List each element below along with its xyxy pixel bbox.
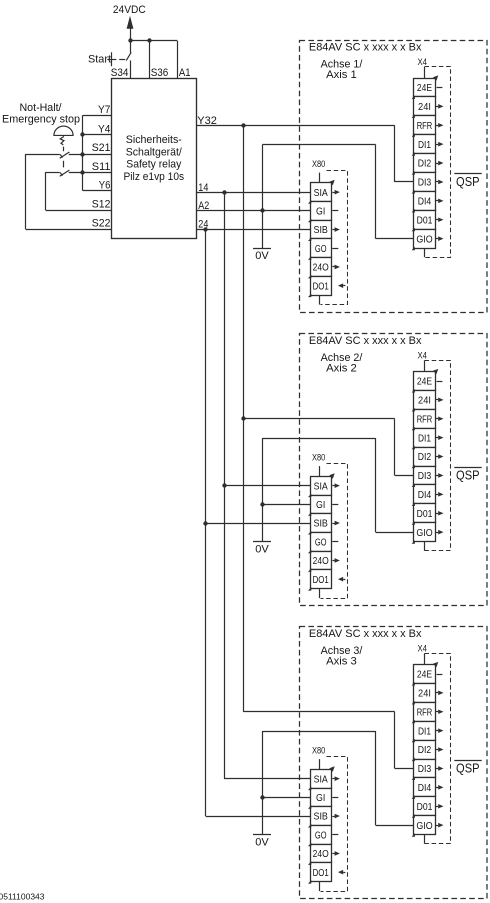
svg-text:DO1: DO1 — [313, 280, 329, 292]
node junction S21 — [80, 152, 84, 156]
svg-text:24E: 24E — [417, 82, 432, 94]
wire QSP branch to DI3 (axis 2) — [243, 419, 413, 476]
terminal strip X4 dashed box (axis 3) — [425, 654, 451, 844]
svg-text:QSP: QSP — [456, 174, 480, 189]
wire 0V to GIO loop (axis 3) — [262, 731, 413, 826]
svg-text:SIB: SIB — [314, 224, 328, 236]
label S11 — [92, 161, 111, 173]
wire S11 right segment — [69, 172, 112, 174]
svg-text:Start: Start — [88, 54, 111, 66]
label S36 — [151, 67, 169, 79]
svg-text:D01: D01 — [417, 801, 433, 813]
terminal strip X4 dashed box (axis 2) — [425, 361, 451, 551]
svg-text:Schaltgerät/: Schaltgerät/ — [126, 146, 183, 158]
svg-text:Axis 2: Axis 2 — [326, 362, 357, 374]
terminal strip X4 cells (axis 1) — [414, 79, 436, 249]
svg-text:RFR: RFR — [417, 706, 433, 718]
node junction QSP bus (axis 2) — [241, 416, 245, 420]
svg-text:24I: 24I — [418, 101, 431, 113]
svg-text:0511100343: 0511100343 — [0, 892, 45, 901]
wire S22 — [26, 229, 112, 231]
terminal strip X80 dashed box (axis 3) — [321, 757, 348, 892]
label Start — [88, 54, 111, 66]
safety relay K1 box — [112, 79, 197, 239]
terminal strip X80 cells (axis 2) — [311, 477, 332, 589]
svg-text:X80: X80 — [312, 746, 325, 756]
terminal strip X80 dashed box (axis 1) — [321, 171, 348, 305]
svg-text:DI3: DI3 — [418, 177, 432, 189]
wire bus 24 vertical — [205, 229, 207, 816]
svg-text:SIA: SIA — [314, 480, 328, 492]
svg-text:DI4: DI4 — [418, 489, 432, 501]
svg-text:X4: X4 — [418, 643, 428, 653]
wire S12 — [46, 210, 112, 212]
start button actuator — [107, 52, 116, 66]
terminal strip X4 label (axis 1) — [418, 57, 428, 67]
svg-text:QSP: QSP — [456, 761, 480, 776]
wire Y4 — [83, 134, 112, 136]
terminal strip X80 pin notches (axis 1) — [308, 200, 311, 297]
wire X80 top stub (axis 2) — [319, 466, 321, 476]
wire A1 drop — [177, 41, 179, 79]
svg-text:X80: X80 — [312, 453, 325, 463]
wire SIB feed (axis 2) — [206, 523, 311, 525]
supply arrow up — [127, 16, 134, 29]
svg-text:SIA: SIA — [314, 773, 328, 785]
label A1 — [179, 67, 191, 79]
svg-text:24E: 24E — [417, 376, 432, 388]
svg-text:0V: 0V — [255, 543, 269, 555]
svg-text:RFR: RFR — [417, 120, 433, 132]
axis 3 dashed enclosure — [300, 627, 488, 899]
label Not-Halt — [20, 102, 63, 114]
wire SIA feed (axis 2) — [224, 485, 310, 487]
axis 3 title — [309, 628, 422, 640]
start button link dash — [119, 59, 125, 61]
wire 24VDC vertical — [130, 28, 132, 41]
wire X4 top stub (axis 2) — [424, 360, 426, 371]
wire Y7 — [83, 115, 112, 117]
terminal strip X4 arrows (axis 2) — [433, 369, 444, 535]
svg-text:X4: X4 — [418, 57, 428, 67]
svg-text:E84AV SC x xxx x x Bx: E84AV SC x xxx x x Bx — [309, 628, 422, 640]
label 14 — [198, 182, 208, 194]
wire 0V to GIO loop (axis 1) — [262, 145, 413, 239]
e-stop contact 1 blade — [60, 152, 70, 158]
axis 1 name — [321, 58, 364, 81]
terminal strip X4 label (axis 2) — [418, 350, 428, 360]
wire X4 top stub (axis 1) — [424, 67, 426, 78]
terminal strip X4 pin notches (axis 1) — [412, 96, 415, 251]
wire X4 top stub (axis 3) — [424, 653, 426, 664]
wire 0V to GIO loop (axis 2) — [262, 438, 413, 533]
ground 0V (axis 3) — [253, 835, 271, 849]
label QSP (axis 2) — [454, 468, 481, 483]
terminal strip X80 pin notches (axis 3) — [308, 787, 311, 884]
terminal strip X80 cells (axis 3) — [311, 770, 332, 882]
svg-text:24E: 24E — [417, 669, 432, 681]
terminal strip X80 dashed box (axis 2) — [321, 464, 348, 599]
terminal strip X4 arrows (axis 3) — [433, 662, 444, 828]
supply label 24VDC — [113, 4, 146, 16]
wire X80 top stub (axis 3) — [319, 759, 321, 769]
axis 1 dashed enclosure — [300, 41, 488, 313]
svg-text:S34: S34 — [111, 67, 129, 79]
wire X4 bottom stub (axis 2) — [424, 542, 426, 551]
svg-text:24I: 24I — [418, 394, 431, 406]
label Y6 — [99, 180, 111, 192]
node junction SIA bus (axis 2) — [222, 483, 226, 487]
label S34 — [111, 67, 129, 79]
start button S34 lower wire — [130, 60, 132, 78]
label Emergency stop — [2, 113, 80, 125]
node junction 14 bus — [222, 190, 226, 194]
label A2 — [198, 200, 209, 212]
svg-text:Y4: Y4 — [98, 123, 110, 135]
wire QSP branch to DI3 (axis 1) — [395, 125, 414, 182]
label Y7 — [98, 104, 110, 116]
svg-text:DO1: DO1 — [313, 867, 329, 879]
label S12 — [92, 199, 111, 211]
wire X80 top stub (axis 1) — [319, 173, 321, 183]
terminal strip X4 cells (axis 3) — [414, 665, 436, 835]
svg-text:GO: GO — [315, 536, 327, 548]
ground 0V (axis 1) — [253, 249, 271, 262]
svg-text:GIO: GIO — [416, 233, 432, 245]
node junction S34 rail — [128, 38, 132, 42]
wire X80 bottom stub (axis 2) — [319, 589, 321, 599]
wire A2 to GI — [196, 210, 310, 212]
label Y32 — [197, 115, 217, 127]
ground 0V (axis 2) — [253, 542, 271, 556]
svg-text:D01: D01 — [417, 214, 433, 226]
node junction S36 rail — [147, 38, 151, 42]
label S22 — [92, 217, 111, 229]
node junction GI 0V (axis 2) — [260, 502, 264, 506]
label 24 — [198, 218, 208, 230]
terminal strip X4 label (axis 3) — [418, 643, 428, 653]
svg-text:DI2: DI2 — [418, 451, 432, 463]
axis 2 name — [321, 352, 364, 375]
wire GI feed (axis 2) — [262, 504, 310, 506]
svg-text:DI3: DI3 — [418, 763, 432, 775]
terminal strip X80 cells (axis 1) — [311, 183, 332, 296]
svg-text:24O: 24O — [313, 848, 329, 860]
wire 24VDC horizontal rail — [130, 40, 177, 42]
start button S34 contact blade — [126, 52, 131, 60]
wire Y6 — [83, 190, 112, 192]
label Y4 — [98, 123, 110, 135]
svg-text:GO: GO — [315, 829, 327, 841]
svg-text:Axis 1: Axis 1 — [326, 69, 357, 81]
terminal strip X4 pin notches (axis 3) — [412, 682, 415, 837]
terminal strip X4 arrows (axis 1) — [433, 75, 444, 241]
terminal strip X80 arrows (axis 2) — [329, 473, 345, 581]
wire S21 right segment — [69, 154, 112, 156]
svg-text:X4: X4 — [418, 350, 428, 360]
wire S22 return vertical — [25, 154, 27, 229]
svg-text:GIO: GIO — [416, 527, 432, 539]
terminal strip X80 label (axis 1) — [312, 159, 325, 169]
svg-text:Pilz e1vp 10s: Pilz e1vp 10s — [124, 171, 185, 183]
svg-text:DI1: DI1 — [418, 432, 431, 444]
svg-text:GIO: GIO — [416, 820, 432, 832]
svg-text:Y7: Y7 — [98, 104, 110, 116]
svg-text:0V: 0V — [255, 836, 269, 848]
wire 24 to SIB — [196, 229, 310, 231]
wire SIB feed (axis 3) — [206, 816, 311, 818]
svg-text:24O: 24O — [313, 262, 329, 274]
svg-text:D01: D01 — [417, 508, 433, 520]
svg-text:24O: 24O — [313, 555, 329, 567]
svg-text:GO: GO — [315, 243, 327, 255]
wire GI feed (axis 3) — [262, 797, 310, 799]
wire bus 14 vertical — [224, 192, 226, 778]
svg-text:SIB: SIB — [314, 518, 328, 530]
node junction S11 — [80, 170, 84, 174]
svg-text:RFR: RFR — [417, 413, 433, 425]
svg-text:S21: S21 — [92, 142, 111, 154]
node junction GI 0V (axis 3) — [260, 795, 264, 799]
e-stop mushroom head — [54, 126, 73, 135]
svg-text:DO1: DO1 — [313, 574, 329, 586]
svg-text:DI1: DI1 — [418, 725, 431, 737]
e-stop contact 2 blade — [60, 170, 70, 176]
svg-text:Not-Halt/: Not-Halt/ — [20, 102, 63, 114]
start button S34 upper wire — [130, 41, 132, 53]
terminal strip X4 pin notches (axis 2) — [412, 389, 415, 544]
svg-text:S36: S36 — [151, 67, 169, 79]
terminal strip X4 dashed box (axis 1) — [425, 67, 451, 258]
svg-text:GI: GI — [316, 205, 325, 217]
svg-text:Y6: Y6 — [99, 180, 111, 192]
document number — [0, 892, 45, 901]
wire link Y7-Y4-S21-S11-Y6 vertical — [82, 115, 84, 191]
wire 0V vertical (axis 3) — [262, 731, 264, 835]
svg-text:DI1: DI1 — [418, 139, 431, 151]
wire X4 bottom stub (axis 1) — [424, 248, 426, 257]
wire X80 bottom stub (axis 1) — [319, 295, 321, 305]
svg-text:Safety relay: Safety relay — [126, 159, 181, 171]
terminal strip X80 pin notches (axis 2) — [308, 494, 311, 591]
svg-text:GI: GI — [316, 499, 325, 511]
wire QSP branch to DI3 (axis 3) — [243, 712, 413, 769]
e-stop latch zigzag — [60, 136, 64, 145]
terminal strip X4 cells (axis 2) — [414, 372, 436, 542]
svg-text:S12: S12 — [92, 199, 111, 211]
svg-text:SIB: SIB — [314, 811, 328, 823]
safety relay K1 text — [124, 134, 185, 183]
svg-text:E84AV SC x xxx x x Bx: E84AV SC x xxx x x Bx — [309, 42, 422, 54]
svg-text:Emergency stop: Emergency stop — [2, 113, 80, 125]
wire bus Y32 vertical — [243, 125, 245, 712]
e-stop link dashes — [63, 147, 65, 168]
wire 0V vertical (axis 2) — [262, 438, 264, 542]
svg-text:GI: GI — [316, 792, 325, 804]
label S21 — [92, 142, 111, 154]
wire S12 return vertical — [45, 172, 47, 210]
node junction 24 bus — [203, 227, 207, 231]
node junction SIB bus (axis 2) — [203, 521, 207, 525]
label QSP (axis 3) — [454, 761, 481, 776]
label QSP (axis 1) — [454, 174, 481, 190]
wire X4 bottom stub (axis 3) — [424, 835, 426, 844]
terminal strip X80 arrows (axis 1) — [329, 180, 345, 288]
wire X80 bottom stub (axis 3) — [319, 882, 321, 892]
svg-text:DI2: DI2 — [418, 744, 432, 756]
svg-text:S22: S22 — [92, 217, 111, 229]
svg-text:DI3: DI3 — [418, 470, 432, 482]
svg-text:24VDC: 24VDC — [113, 4, 146, 16]
svg-text:0V: 0V — [255, 250, 269, 262]
wire 14 to SIA — [196, 192, 310, 194]
terminal strip X80 label (axis 3) — [312, 746, 325, 756]
svg-text:24I: 24I — [418, 687, 431, 699]
axis 1 title — [309, 42, 422, 54]
svg-text:X80: X80 — [312, 159, 325, 169]
wire Y32 — [196, 125, 395, 127]
svg-text:Sicherheits-: Sicherheits- — [126, 134, 182, 146]
axis 2 dashed enclosure — [300, 334, 488, 606]
wire S11 left segment — [46, 172, 60, 174]
wire S21 left segment — [26, 154, 60, 156]
node junction A2 0V — [260, 208, 264, 212]
svg-text:DI4: DI4 — [418, 782, 432, 794]
svg-text:S11: S11 — [92, 161, 111, 173]
wire 0V vertical (axis 1) — [262, 145, 264, 249]
node junction Y4 — [80, 132, 84, 136]
axis 3 name — [321, 645, 364, 668]
svg-text:DI4: DI4 — [418, 195, 432, 207]
terminal strip X80 arrows (axis 3) — [329, 766, 345, 874]
svg-text:A1: A1 — [179, 67, 191, 79]
axis 2 title — [309, 335, 422, 347]
wire S36 drop — [149, 41, 151, 79]
svg-text:QSP: QSP — [456, 468, 480, 483]
svg-text:E84AV SC x xxx x x Bx: E84AV SC x xxx x x Bx — [309, 335, 422, 347]
svg-text:SIA: SIA — [314, 187, 328, 199]
node junction Y32 bus — [241, 123, 245, 127]
wire SIA feed (axis 3) — [224, 778, 310, 780]
terminal strip X80 label (axis 2) — [312, 453, 325, 463]
svg-text:Axis 3: Axis 3 — [326, 655, 357, 667]
svg-text:DI2: DI2 — [418, 158, 432, 170]
